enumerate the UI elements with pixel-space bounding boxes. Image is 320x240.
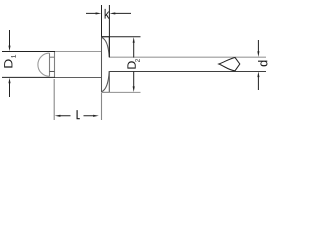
dome crown contour upper xyxy=(101,37,109,57)
mandrel stem visible in gap xyxy=(50,56,55,58)
mandrel break notch xyxy=(219,57,240,70)
D2 arrowheads xyxy=(133,37,135,92)
head outer face upper xyxy=(108,37,110,58)
mandrel stem main rod top xyxy=(109,56,266,58)
D2 dimension line segments xyxy=(133,42,135,87)
dimension D1 extension lines xyxy=(2,52,55,78)
rivet setting head xyxy=(101,37,109,93)
tube top line xyxy=(55,51,102,53)
tube bottom line xyxy=(55,76,102,78)
L dimension line + arrows xyxy=(60,115,93,117)
mandrel head dome face xyxy=(49,53,51,76)
rivet body tube outline xyxy=(38,52,266,78)
head top edge xyxy=(102,36,110,38)
dimension d arrows xyxy=(257,40,259,90)
dimension D2 extension lines xyxy=(102,37,141,93)
dimension k extension lines xyxy=(86,5,131,57)
k arrowheads xyxy=(96,12,116,14)
dimension D1 arrow bottom xyxy=(9,83,11,97)
mandrel head dome arc xyxy=(38,53,50,76)
head bottom edge xyxy=(102,91,110,93)
label L xyxy=(77,110,80,119)
head outer face lower xyxy=(108,71,110,92)
label D2 xyxy=(127,61,135,68)
tube left face xyxy=(54,52,56,78)
label k xyxy=(105,9,110,19)
dome crown contour lower xyxy=(101,71,109,92)
mandrel stem main rod bottom xyxy=(109,70,266,72)
white box behind D2 label xyxy=(127,58,140,69)
k arrow tails xyxy=(86,12,131,14)
dimension D1 arrow top xyxy=(8,30,10,97)
label d xyxy=(258,61,267,67)
label D1 xyxy=(4,59,12,67)
head underside plane xyxy=(101,37,103,93)
dimension L extension lines xyxy=(54,79,101,120)
